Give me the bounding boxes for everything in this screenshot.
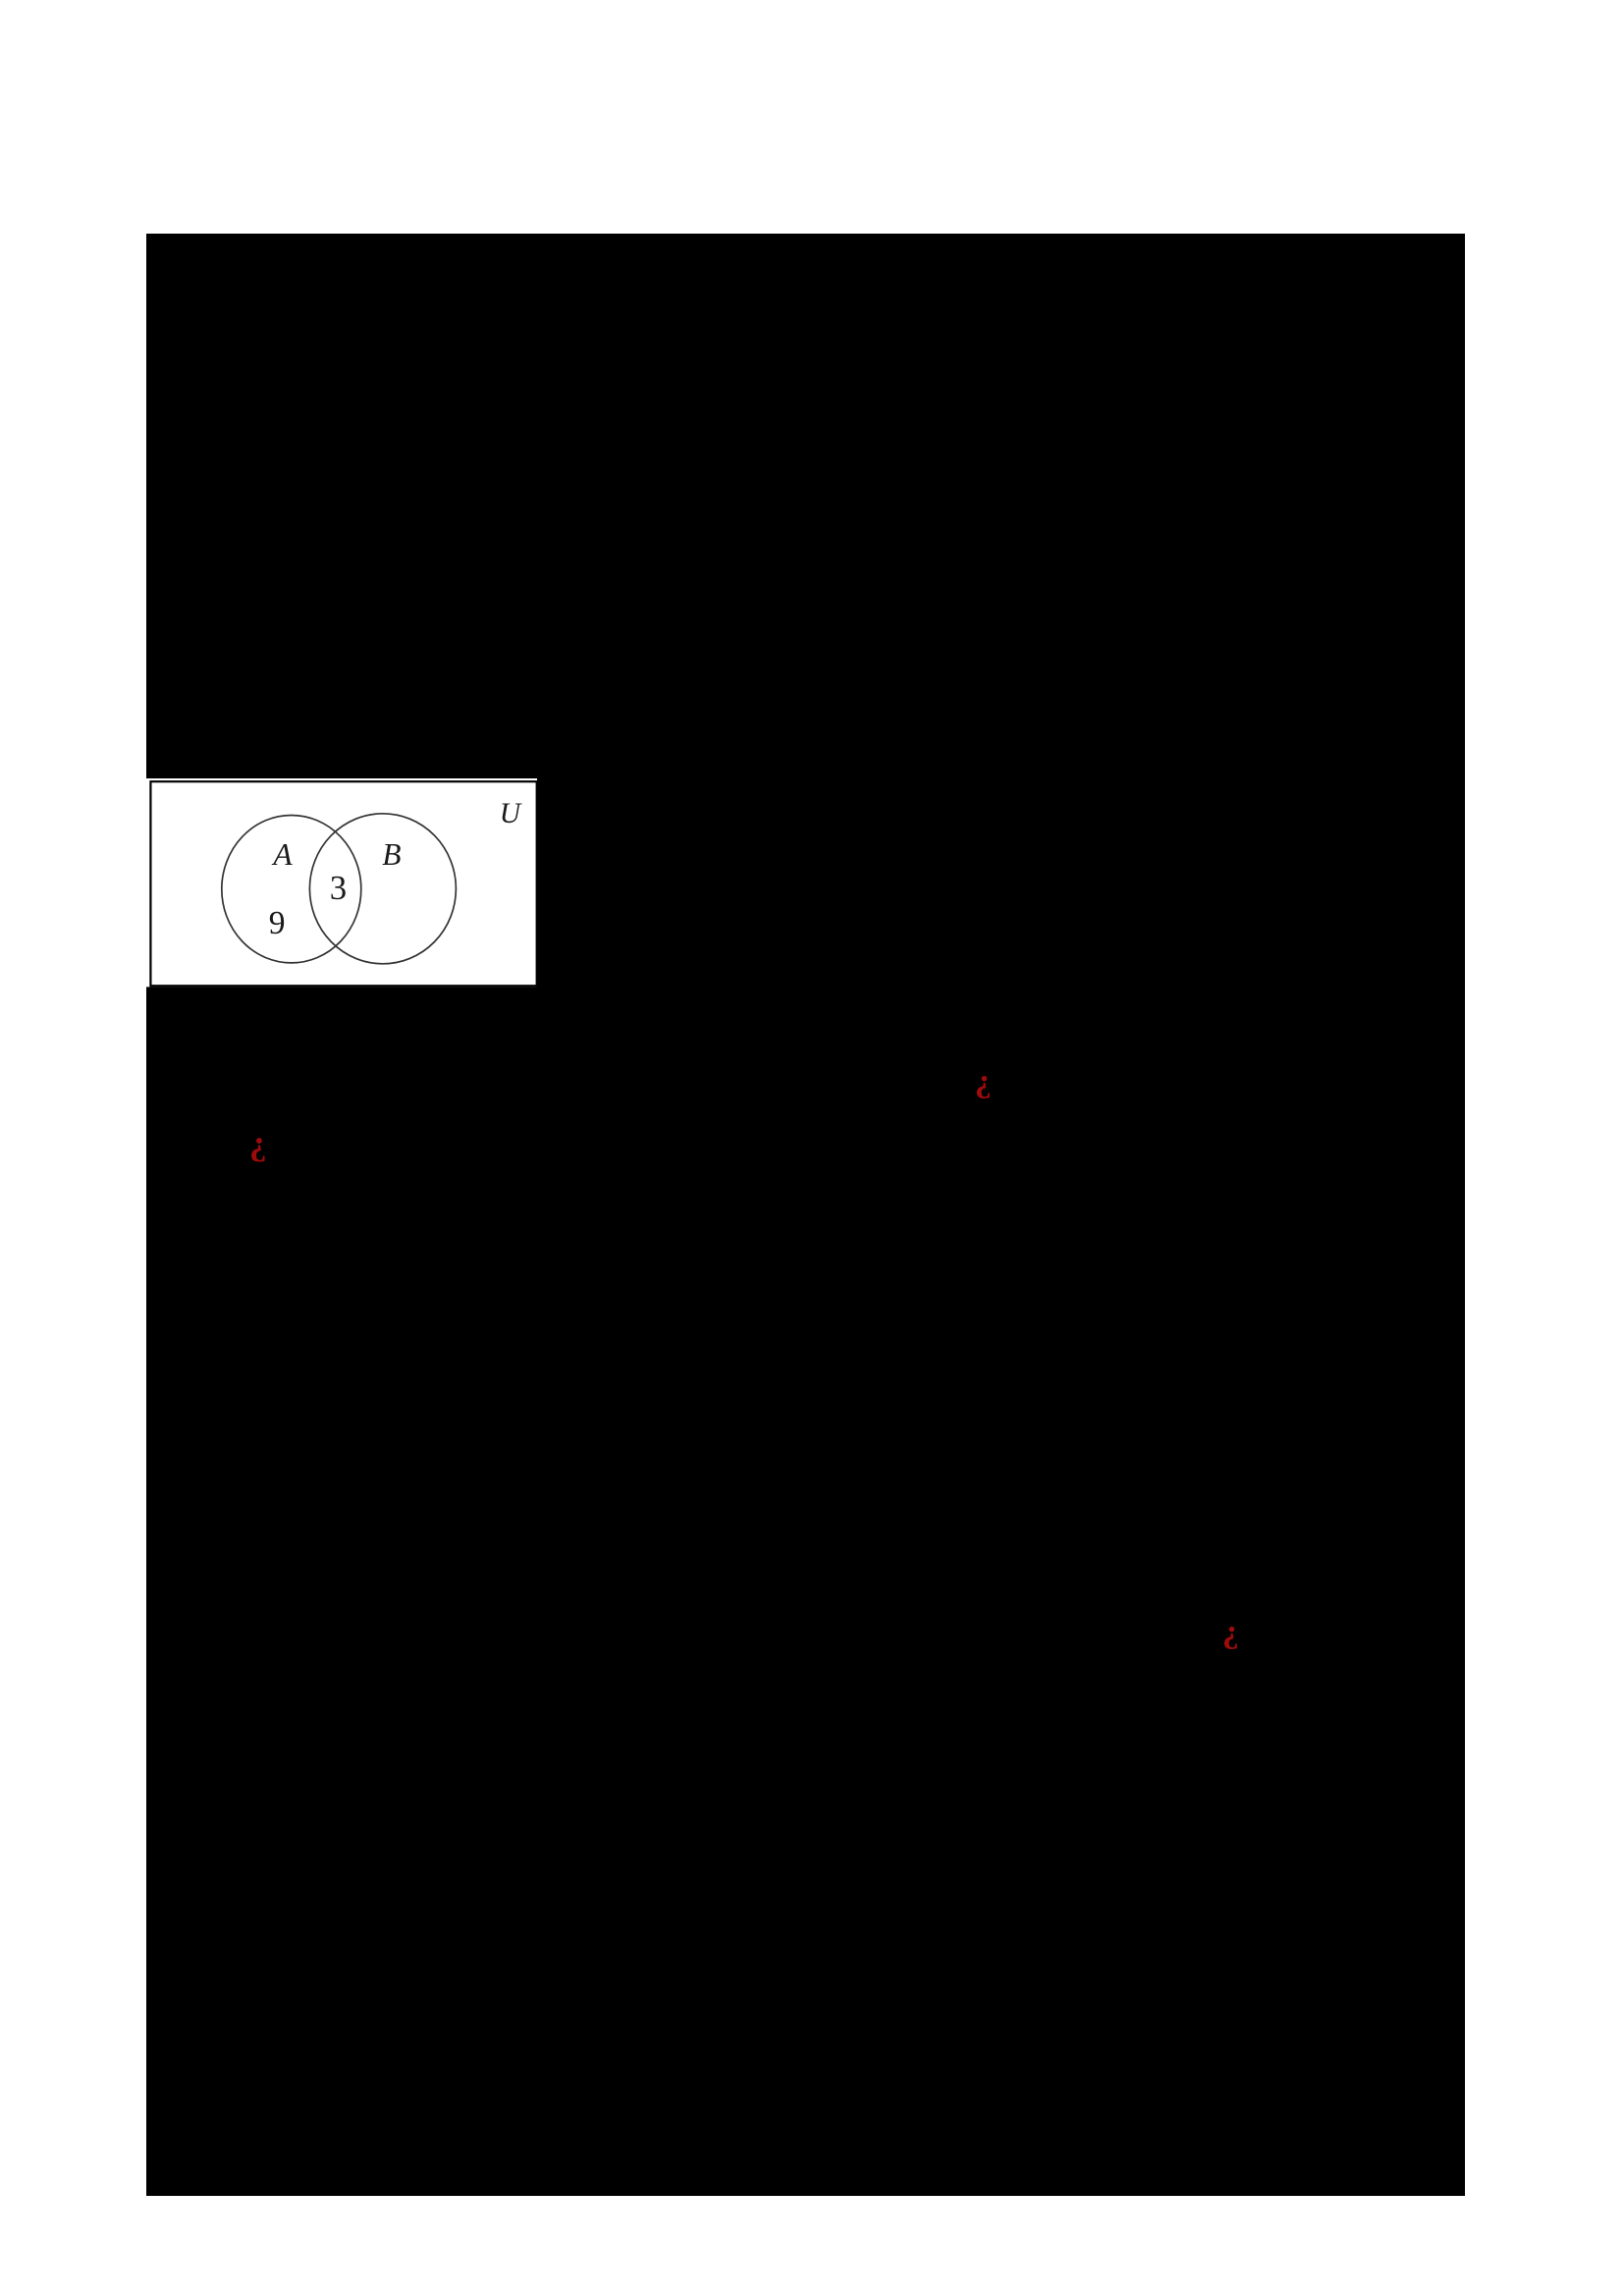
circle A	[221, 816, 360, 963]
circle B	[309, 814, 456, 964]
figure white background	[146, 778, 538, 987]
label A	[273, 854, 292, 856]
Venn diagram figure (white panel)	[146, 778, 538, 987]
label B	[382, 854, 401, 856]
label U	[500, 813, 520, 815]
red placeholder mark 1	[975, 1081, 992, 1083]
universe U border rectangle	[150, 781, 536, 986]
label 3	[330, 887, 347, 889]
red placeholder mark 2	[249, 1142, 267, 1144]
black page body block	[146, 234, 1465, 2196]
red placeholder mark 3	[1222, 1631, 1239, 1633]
label 9	[269, 923, 286, 925]
